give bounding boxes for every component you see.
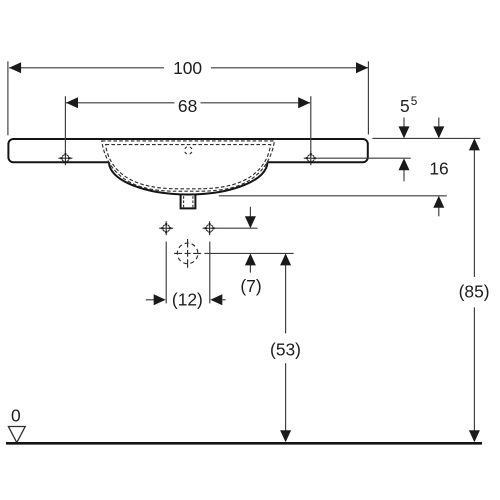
svg-text:5: 5 <box>400 96 410 116</box>
basin rim hidden outline (inner, dashed) <box>106 145 271 189</box>
svg-text:0: 0 <box>11 405 21 425</box>
reference line: lower holes level <box>217 227 258 229</box>
reference line: fixing hole level <box>318 157 411 159</box>
dimension (53): line with arrows <box>285 265 287 334</box>
dimension (7): lower arrow <box>249 265 251 273</box>
svg-text:68: 68 <box>178 96 197 116</box>
datum triangle <box>8 427 25 443</box>
mounting hole cross lower-left <box>159 221 173 235</box>
reference line: supply level <box>204 252 293 254</box>
supply connection crosshair <box>174 252 201 254</box>
basin rim hidden outline (outer, dashed) <box>102 141 275 191</box>
fixing hole cross left (in slab) <box>58 151 72 165</box>
washbasin slab outline <box>8 139 367 162</box>
dimension 68: extension line left <box>64 96 66 152</box>
dimension 5.5: upper arrow <box>403 118 405 128</box>
svg-text:(7): (7) <box>240 276 261 296</box>
dimension (12): extension line right <box>209 242 211 304</box>
dimension 68: extension line right <box>310 96 312 152</box>
svg-text:(53): (53) <box>270 340 301 360</box>
supply connection circle (dashed) <box>177 243 198 264</box>
dimension 16: lower arrow <box>438 207 440 216</box>
dimension 100: line <box>9 67 164 69</box>
dimension (12): extension line left <box>165 242 167 304</box>
svg-text:(85): (85) <box>459 281 490 301</box>
dimension 68: line <box>66 102 175 104</box>
fixing hole cross right (in slab) <box>304 151 318 165</box>
dimension (12): left arrow <box>146 299 154 301</box>
dimension (7): upper arrow <box>249 207 251 217</box>
dimension 100: extension line right <box>367 61 369 134</box>
floor line <box>6 442 482 445</box>
dimension 100: arrowheads <box>9 62 21 73</box>
mounting hole cross lower-right <box>203 221 217 235</box>
dimension 5.5: lower arrow <box>403 170 405 181</box>
dimension 16: upper arrow <box>438 118 440 128</box>
drain hidden edges (dashed) <box>183 196 185 207</box>
reference line: slab top level <box>372 137 480 139</box>
tap hole (small dashed circle) <box>185 147 193 155</box>
svg-text:100: 100 <box>173 58 202 78</box>
dimension 100: extension line left <box>7 61 9 135</box>
dimension (12): right arrow <box>222 299 225 301</box>
svg-text:5: 5 <box>411 94 418 108</box>
dimension (85): line with arrows <box>473 150 475 277</box>
reference line: bowl bottom level <box>219 195 447 197</box>
svg-text:(12): (12) <box>172 290 203 310</box>
svg-text:16: 16 <box>429 159 448 179</box>
bowl front silhouette arc <box>109 162 267 194</box>
dimension 68: arrowheads <box>66 97 78 108</box>
drain outlet box <box>181 195 196 209</box>
